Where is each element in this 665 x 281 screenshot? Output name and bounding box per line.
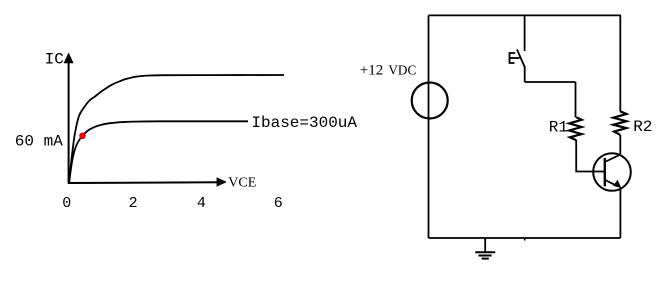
upper characteristic curve	[69, 75, 284, 183]
svg-text:4: 4	[197, 195, 206, 212]
svg-text:+12: +12	[360, 63, 383, 79]
y-axis	[68, 60, 70, 184]
x-axis	[68, 181, 219, 184]
ground stub	[484, 238, 486, 252]
svg-text:60 mA: 60 mA	[15, 132, 63, 150]
lower characteristic curve Ibase=300uA	[69, 121, 248, 183]
wire: switch to R1 horizontal	[525, 81, 576, 83]
transistor Q1 circle	[593, 153, 631, 191]
transistor Q1 base bar	[604, 158, 606, 186]
switch S1 upper stub	[524, 15, 526, 51]
wire: R1 to base	[576, 140, 605, 171]
ground symbol	[475, 251, 495, 253]
wire: switch lower stub	[524, 66, 526, 82]
wire: bottom horizontal	[429, 237, 621, 239]
y-axis arrowhead	[64, 53, 74, 64]
transistor Q1 emitter diagonal with arrow	[605, 180, 616, 186]
x-axis arrowhead	[217, 177, 227, 187]
svg-text:VCE: VCE	[228, 175, 256, 190]
resistor R1	[569, 117, 582, 140]
operating point (red dot)	[79, 133, 86, 140]
svg-text:6: 6	[274, 195, 283, 212]
junction tick on bottom wire	[524, 238, 526, 241]
resistor R2	[613, 111, 626, 135]
wire: R2 to collector	[619, 135, 621, 156]
svg-text:Ibase=300uA: Ibase=300uA	[251, 114, 357, 132]
svg-text:2: 2	[129, 195, 138, 212]
svg-text:R2: R2	[633, 118, 652, 136]
wire: right vertical to R2	[619, 15, 621, 111]
wire: top horizontal	[429, 14, 621, 16]
wire: down to R1	[575, 82, 577, 118]
wire: emitter down	[619, 188, 621, 239]
voltage source V1 circle	[412, 83, 448, 119]
svg-text:0: 0	[62, 195, 71, 212]
svg-text:IC: IC	[45, 50, 64, 68]
switch S1 contact arm	[510, 57, 520, 59]
switch S1 blade	[517, 50, 525, 68]
transistor Q1 collector diagonal	[605, 155, 621, 162]
switch S1 contact bracket	[510, 53, 516, 63]
svg-text:VDC: VDC	[388, 63, 416, 78]
svg-text:R1: R1	[549, 119, 568, 137]
wire: left vertical (supply)	[428, 15, 430, 238]
